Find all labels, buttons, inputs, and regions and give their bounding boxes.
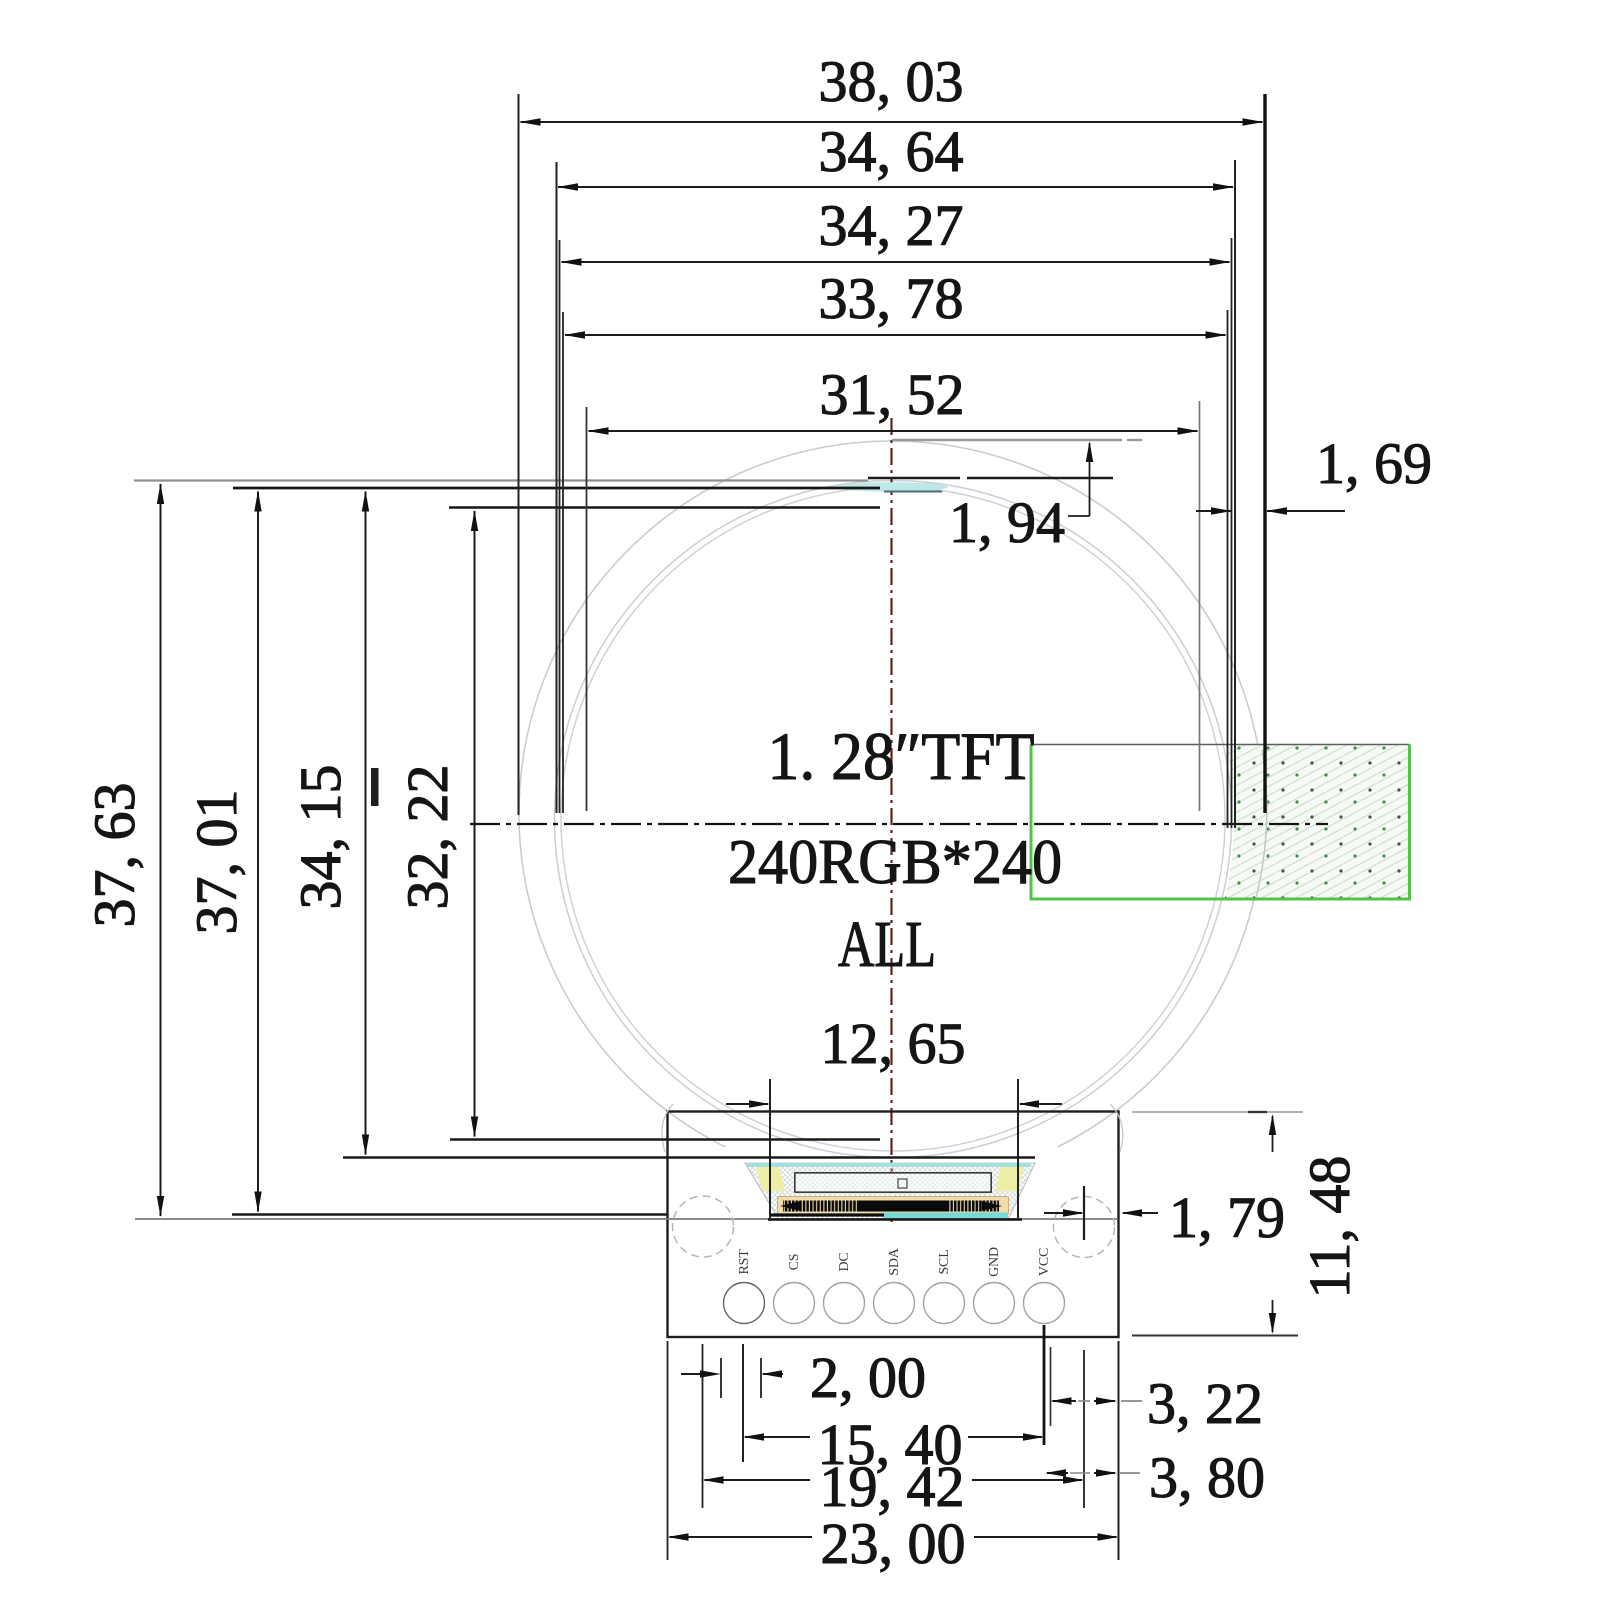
dim 19,42 arrows [705,1479,811,1481]
glass edge circle outer (34.64 dia) [555,481,1232,1158]
bond pad band right arrowhead [982,1201,1002,1211]
dim 11,48 ref lines [1132,1111,1303,1113]
funnel yellow patch left [756,1167,785,1191]
black glass bottom edge segment [770,1213,884,1216]
dim 38,03 line [521,121,1263,123]
module-to-PCB fillet right [1110,1104,1123,1152]
funnel yellow patch right [995,1167,1024,1191]
funnel cyan top line [747,1163,1031,1168]
svg-text:33, 78: 33, 78 [819,266,964,331]
IC pin1 mark [898,1179,907,1188]
bottom extension lines [667,1341,669,1560]
dim 31,52 ext lines [586,407,588,811]
svg-text:2, 00: 2, 00 [810,1345,926,1410]
svg-text:3, 80: 3, 80 [1149,1445,1265,1510]
dim 33,78 ext lines [562,312,564,813]
dim 11,48 line [1272,1116,1274,1152]
svg-text:VCC: VCC [1037,1248,1052,1276]
dim 38,03 ext lines [518,94,520,815]
module circle arc over hatch [1256,750,1267,898]
svg-text:3, 22: 3, 22 [1147,1371,1263,1436]
dim 34,64 ext lines [556,162,558,813]
dim 1,94 line [1089,443,1091,516]
svg-text:1, 69: 1, 69 [1316,431,1432,496]
dim 32,22 line [474,511,476,1137]
glass top tangent line right [892,439,1122,442]
dim 2,00 arrows [681,1373,703,1375]
ref line 1.94 bottom [868,477,960,480]
dim 12,65 arrows [726,1103,768,1105]
svg-text:19, 42: 19, 42 [820,1454,965,1519]
svg-text:1, 79: 1, 79 [1169,1185,1285,1250]
svg-text:38, 03: 38, 03 [819,49,964,114]
dim 3,22 arrows [1053,1400,1077,1402]
mounting hole right [1054,1197,1115,1258]
svg-text:GND: GND [987,1247,1002,1277]
ref line 34.15 bottom (glass bottom) [343,1156,1035,1158]
svg-text:240RGB*240: 240RGB*240 [728,826,1062,897]
ref line 32.22 top [449,506,880,509]
svg-text:11, 48: 11, 48 [1297,1156,1362,1299]
pin holes RST CS DC SDA SCL GND VCC [724,1283,765,1324]
svg-text:DC: DC [837,1252,852,1271]
bottom ref line 37.63 (gray full width) [135,1218,1118,1220]
FPC rectangle top border [1031,744,1410,746]
dim 15,40 arrows [745,1436,810,1438]
svg-text:SDA: SDA [887,1247,902,1275]
svg-text:23, 00: 23, 00 [821,1511,966,1576]
module-to-PCB fillet left [662,1104,673,1152]
svg-text:32, 22: 32, 22 [395,765,460,910]
dim 12,65 ticks [769,1079,771,1221]
svg-text:34, 64: 34, 64 [819,119,964,184]
dim 2,00 ticks [720,1358,722,1398]
dim 1,79 arrows [1044,1212,1082,1214]
driver IC outline [796,1174,991,1192]
horizontal centerline [470,823,1328,825]
dim 34,27 line [562,261,1230,263]
dim 1,69 arrows [1196,510,1231,512]
FPC funnel mesh area [745,1163,1035,1220]
svg-text:SCL: SCL [937,1249,952,1274]
dim 37,01 line [257,492,259,1212]
svg-text:RST: RST [737,1249,752,1275]
ref line 37.63 top [134,479,868,481]
dim 33,78 line [565,334,1226,336]
bond pads black band [783,1201,999,1212]
dim 34,64 line [558,186,1233,188]
ref line 37.01 / 34.15 top [233,487,880,490]
dim 3,80 arrows [1047,1472,1068,1474]
ref line 37.01 bottom [232,1213,667,1215]
svg-text:37, 01: 37, 01 [184,790,249,935]
dim 37,63 line [160,484,162,1216]
bond pad band left arrowhead [780,1201,800,1211]
svg-text:37, 63: 37, 63 [82,783,147,928]
svg-text:ALL: ALL [838,908,936,981]
svg-text:34, 27: 34, 27 [819,193,964,258]
ref line 32.22 bottom [450,1138,880,1140]
PCB board outline [668,1112,1119,1338]
vertical centerline [890,418,892,1222]
cyan bottom band [884,1213,1008,1219]
tolerance dash mark [371,768,379,806]
dim 34,27 ext lines [559,240,561,813]
dim 1,79 tick [1083,1186,1085,1240]
FPC connector rectangle hatch fill [552,478,1420,1160]
svg-text:34, 15: 34, 15 [288,765,353,910]
bond pad orange band [778,1197,1008,1214]
glass edge circle inner (33.78 dia) [561,487,1225,1151]
mounting hole left [673,1196,734,1257]
svg-text:31, 52: 31, 52 [820,362,965,427]
FPC rectangle green border left/bottom/right [1031,745,1410,900]
dim 23,00 arrows [670,1536,813,1538]
svg-text:1. 28″TFT: 1. 28″TFT [768,718,1035,794]
dim 31,52 line [589,430,1198,432]
dim 34,15 line [365,492,367,1155]
svg-text:12, 65: 12, 65 [821,1011,966,1076]
cyan glass band top center [836,482,948,491]
svg-text:1, 94: 1, 94 [949,490,1065,555]
svg-text:CS: CS [787,1254,802,1271]
outer module circle (38.03 dia) [519,441,1264,1186]
